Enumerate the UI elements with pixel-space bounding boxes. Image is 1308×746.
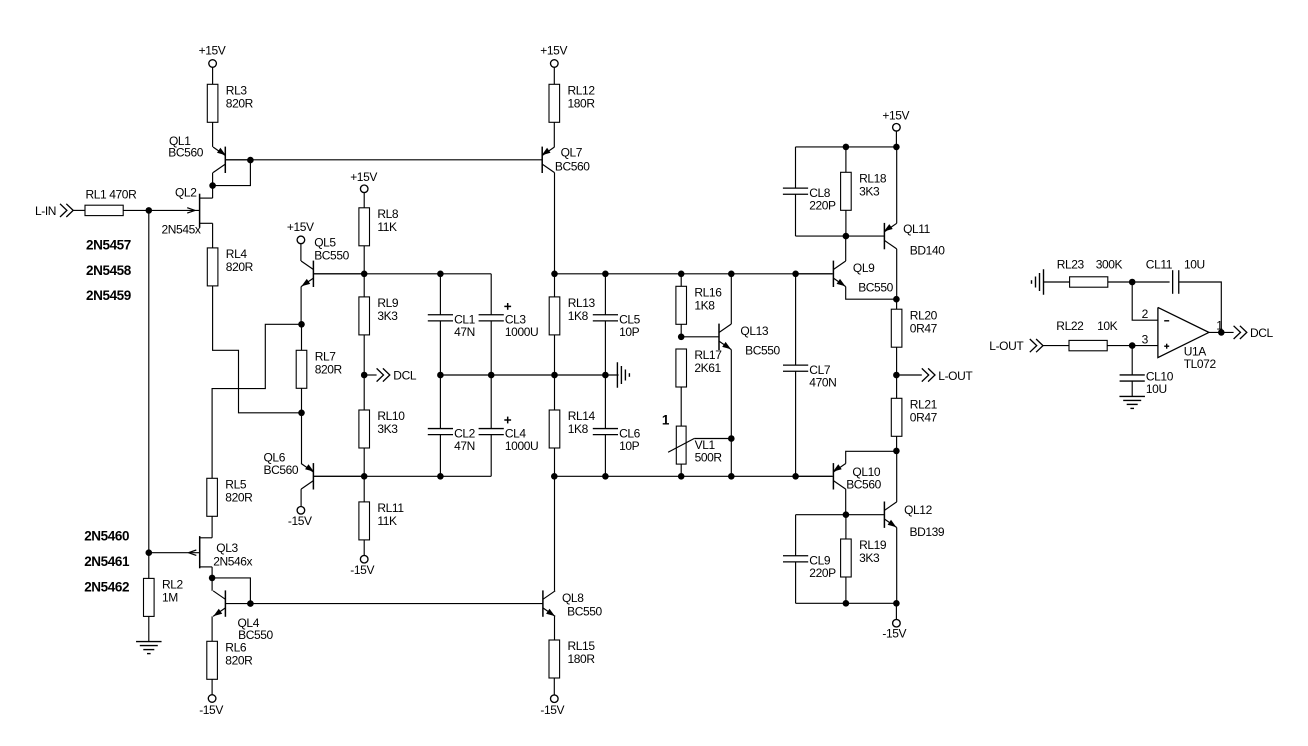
wire CL9/RL19 bottom rail	[796, 602, 897, 604]
node QL11 base node	[843, 233, 850, 240]
wire +15V down	[895, 131, 897, 147]
wire RL19 bottom stub	[845, 577, 847, 603]
node CL1 top	[437, 271, 444, 278]
wire current mirror base rail	[225, 159, 542, 161]
node QL1 base tie	[247, 157, 254, 164]
svg-text:2N5462: 2N5462	[84, 580, 129, 595]
svg-text:2: 2	[1142, 307, 1149, 321]
power terminal +15V (T6)	[350, 170, 377, 193]
svg-text:RL10: RL10	[377, 409, 405, 423]
svg-text:2N5458: 2N5458	[86, 263, 132, 278]
node QL8 collector node	[551, 473, 558, 480]
svg-text:RL14: RL14	[568, 409, 596, 423]
wire QL12 emitter down	[896, 528, 898, 604]
svg-text:BC550: BC550	[567, 605, 602, 619]
svg-text:820R: 820R	[226, 260, 254, 274]
svg-text:820R: 820R	[225, 491, 253, 505]
svg-text:180R: 180R	[568, 652, 596, 666]
port L-OUT (op-amp input)	[989, 339, 1043, 353]
wire VL1 bottom stub	[680, 464, 682, 476]
wire	[553, 122, 555, 147]
transistor QL12 (BD139)	[884, 502, 945, 540]
wire VL1 wiper	[694, 438, 731, 440]
transistor QL9 (BC550)	[796, 261, 894, 295]
svg-text:+15V: +15V	[540, 44, 567, 58]
label 2N5459	[86, 288, 131, 303]
wire lower mirror base rail to QL8	[250, 603, 543, 605]
svg-text:2N5459: 2N5459	[86, 288, 131, 303]
wire QL4 emitter down	[211, 616, 213, 641]
svg-text:RL6: RL6	[225, 641, 247, 655]
node RL16/RL17 (QL13 base)	[678, 334, 685, 341]
transistor QL5 (BC550)	[301, 235, 364, 287]
wire RL7 top stub	[301, 324, 303, 350]
svg-text:3: 3	[1142, 332, 1149, 346]
port L-OUT (output)	[896, 368, 973, 383]
svg-text:RL18: RL18	[859, 172, 887, 186]
resistor RL5	[207, 478, 253, 517]
svg-text:-15V: -15V	[540, 703, 564, 717]
wire RL9 bottom stub	[363, 335, 365, 375]
wire CL6 column upper	[604, 375, 606, 429]
svg-text:DCL: DCL	[393, 368, 417, 382]
svg-text:RL21: RL21	[910, 398, 938, 412]
svg-text:RL16: RL16	[694, 286, 722, 300]
svg-text:RL19: RL19	[859, 538, 887, 552]
wire QL1 base-collector tie	[213, 160, 251, 186]
wire RL14 top stub	[554, 375, 556, 410]
wire CL8 lower	[795, 194, 797, 236]
node QL4 base tie	[247, 600, 254, 607]
svg-text:BC560: BC560	[264, 463, 299, 477]
svg-text:820R: 820R	[315, 363, 343, 377]
svg-text:RL12: RL12	[568, 84, 596, 98]
wire QL5 collector	[300, 243, 302, 261]
wire QL2 drain up	[212, 186, 214, 199]
node QL1 collector / QL2 drain	[209, 182, 216, 189]
svg-text:QL9: QL9	[853, 261, 875, 275]
svg-text:2N5460: 2N5460	[84, 528, 129, 543]
wire RL17 bottom stub	[680, 387, 682, 426]
wire RL20 bottom stub	[896, 347, 898, 375]
transistor QL10 (BC560)	[796, 463, 882, 491]
svg-text:RL1 470R: RL1 470R	[86, 187, 138, 201]
power terminal -15V (T10)	[882, 619, 906, 640]
capacitor CL6	[593, 426, 641, 453]
wire RL21 top stub	[896, 375, 898, 398]
svg-text:10P: 10P	[619, 439, 640, 453]
wire RL23 to node	[1108, 281, 1132, 283]
node -15V node	[893, 600, 900, 607]
transistor QL4 (BC550)	[213, 590, 273, 641]
svg-text:QL13: QL13	[740, 324, 768, 338]
wire RL18 bottom stub	[845, 210, 847, 236]
wire CL1 column upper	[439, 274, 441, 315]
resistor RL19	[841, 538, 887, 577]
JFET QL2 (2N545x)	[149, 186, 213, 237]
wire RL16 bottom stub	[680, 324, 682, 337]
wire CL8 upper	[795, 147, 797, 188]
resistor RL1	[85, 187, 137, 215]
resistor RL22	[1056, 319, 1117, 351]
capacitor CL4	[479, 417, 539, 453]
wire QL13 collector up	[730, 274, 732, 324]
node CL1/CL2	[437, 372, 444, 379]
wire RL5 top to RL7 top	[212, 324, 301, 478]
wire inverting input	[1132, 282, 1158, 320]
svg-text:-15V: -15V	[199, 703, 223, 717]
node op-amp output node	[1218, 329, 1225, 336]
svg-text:L-OUT: L-OUT	[938, 369, 973, 383]
ground (CL10 ground)	[1119, 396, 1145, 408]
port DCL (op-amp output)	[1234, 326, 1274, 340]
svg-text:RL15: RL15	[568, 639, 596, 653]
wire QL11 base rail	[796, 235, 885, 237]
node +15V node	[893, 144, 900, 151]
svg-text:RL9: RL9	[377, 296, 399, 310]
node VL1 bottom	[678, 473, 685, 480]
wire arrow to RL22	[1043, 345, 1069, 347]
wire bottom rail A (QL6 base net)	[313, 475, 491, 477]
svg-text:820R: 820R	[226, 97, 254, 111]
node RL8/RL9	[361, 271, 368, 278]
capacitor CL7	[783, 363, 836, 390]
svg-text:QL11: QL11	[903, 222, 931, 236]
svg-text:3K3: 3K3	[377, 422, 398, 436]
svg-text:300K: 300K	[1096, 258, 1123, 272]
svg-text:RL11: RL11	[377, 501, 404, 515]
wire QL6 emitter	[301, 413, 303, 464]
wire QL4 base-collector tie	[212, 578, 250, 604]
node RL16 top	[678, 271, 685, 278]
wire QL9 emitter	[846, 287, 897, 300]
svg-text:2N5461: 2N5461	[84, 554, 130, 569]
wire CL2 column lower	[439, 435, 441, 477]
svg-text:820R: 820R	[225, 654, 253, 668]
node input	[146, 207, 153, 214]
wire top rail A (QL5 base net)	[313, 273, 491, 275]
resistor RL7	[296, 350, 342, 389]
resistor RL12	[549, 84, 595, 123]
svg-text:QL7: QL7	[561, 146, 583, 160]
wire	[363, 246, 365, 274]
wire	[148, 553, 150, 579]
svg-text:TL072: TL072	[1184, 357, 1217, 371]
wire QL3 drain up to RL5	[211, 516, 213, 538]
potentiometer VL1	[668, 426, 722, 465]
wire CL4 column upper	[490, 375, 492, 429]
node CL5 top	[602, 271, 609, 278]
wire CL10 lower	[1131, 381, 1133, 396]
wire CL3 column upper	[490, 274, 492, 315]
svg-text:BC560: BC560	[846, 478, 881, 492]
wire middle DCL rail	[440, 374, 618, 376]
wire CL6 column lower	[604, 435, 606, 477]
wire CL5 column lower	[604, 321, 606, 375]
resistor RL21	[891, 398, 937, 437]
node VL1 wiper / QL13 emitter	[728, 435, 735, 442]
svg-text:10K: 10K	[1097, 319, 1118, 333]
node CL7 bottom	[792, 473, 799, 480]
transistor QL11 (BD140)	[884, 222, 945, 257]
node CL5/CL6	[602, 372, 609, 379]
wire RL4 to RL7 bottom	[213, 286, 302, 413]
resistor RL20	[891, 308, 937, 347]
power terminal +15V (T9)	[882, 108, 909, 131]
capacitor CL9	[783, 554, 836, 581]
wire CL5 column upper	[604, 274, 606, 315]
wire RL7 bottom stub	[301, 388, 303, 413]
label 2N5457	[86, 237, 131, 252]
power terminal -15V (T2)	[199, 695, 223, 717]
svg-text:-15V: -15V	[288, 514, 312, 528]
svg-text:QL3: QL3	[216, 541, 238, 555]
wire	[73, 209, 85, 211]
svg-text:-15V: -15V	[350, 563, 374, 577]
label VL1 pin 1	[662, 413, 670, 428]
wire	[123, 209, 149, 211]
label 2N5462	[84, 580, 129, 595]
svg-text:CL11: CL11	[1146, 258, 1173, 272]
transistor QL6 (BC560)	[264, 450, 365, 489]
resistor RL3	[207, 84, 253, 123]
ground (input bias return)	[136, 642, 162, 654]
wire input node to QL3 gate	[148, 210, 150, 552]
node non-inverting input node	[1129, 342, 1136, 349]
wire ground to RL23	[1044, 281, 1070, 283]
resistor RL18	[841, 172, 887, 211]
wire QL12 collector up	[896, 451, 898, 502]
wire	[211, 679, 213, 695]
svg-text:220P: 220P	[809, 566, 836, 580]
svg-text:2K61: 2K61	[694, 361, 721, 375]
node DCL node	[361, 372, 368, 379]
svg-text:0R47: 0R47	[910, 321, 938, 335]
node RL7 bottom	[298, 410, 305, 417]
svg-text:1K8: 1K8	[568, 422, 589, 436]
svg-text:180R: 180R	[568, 97, 596, 111]
transistor QL7 (BC560)	[542, 146, 591, 174]
svg-text:2N546x: 2N546x	[213, 555, 252, 569]
svg-text:QL8: QL8	[562, 591, 584, 605]
wire QL13 emitter down	[730, 350, 732, 439]
resistor RL2	[144, 578, 184, 617]
svg-text:1000U: 1000U	[505, 325, 538, 339]
wire CL3 column lower	[490, 321, 492, 375]
wire RL19 top stub	[845, 515, 847, 539]
svg-text:3K3: 3K3	[377, 309, 398, 323]
svg-text:DCL: DCL	[1250, 326, 1274, 340]
wire RL14 bottom stub	[554, 448, 556, 476]
wire CL8/RL18 top rail	[796, 146, 897, 148]
wire CL9 upper	[795, 515, 797, 556]
power terminal -15V (T7)	[350, 555, 374, 576]
node QL10/QL12 node	[893, 448, 900, 455]
capacitor CL10	[1120, 370, 1174, 397]
svg-text:BC560: BC560	[168, 145, 203, 159]
svg-text:RL22: RL22	[1056, 319, 1084, 333]
resistor RL23	[1057, 258, 1123, 288]
svg-text:470N: 470N	[809, 376, 836, 390]
node QL3 gate	[146, 549, 153, 556]
node RL10/RL11	[361, 473, 368, 480]
svg-text:RL3: RL3	[226, 84, 248, 98]
node QL9/QL11 output node	[893, 296, 900, 303]
wire RL11 bottom stub	[363, 540, 365, 556]
node CL2 bottom	[437, 473, 444, 480]
svg-text:RL23: RL23	[1057, 258, 1085, 272]
node CL3/CL4	[488, 372, 495, 379]
label 2N5458	[86, 263, 132, 278]
wire CL2 column upper	[439, 375, 441, 429]
resistor RL13	[549, 296, 595, 335]
resistor RL4	[207, 247, 253, 286]
svg-text:+15V: +15V	[199, 44, 226, 58]
svg-text:RL2: RL2	[162, 578, 184, 592]
capacitor CL8	[783, 186, 836, 213]
wire QL8 emitter down	[554, 616, 556, 640]
wire QL9 collector up	[845, 236, 847, 261]
power terminal -15V (T8)	[540, 695, 564, 717]
power terminal +15V (T3)	[540, 44, 567, 68]
node L-OUT node	[893, 372, 900, 379]
svg-text:BD140: BD140	[910, 244, 945, 258]
resistor RL8	[359, 207, 399, 246]
node RL13/RL14	[551, 372, 558, 379]
node CL7 top	[792, 271, 799, 278]
svg-text:+15V: +15V	[882, 108, 909, 122]
resistor RL11	[359, 501, 404, 540]
wire	[212, 67, 214, 84]
ground (RL23 ground)	[1032, 269, 1044, 295]
svg-text:10P: 10P	[619, 325, 640, 339]
svg-text:1: 1	[662, 413, 670, 428]
resistor RL10	[359, 409, 405, 448]
wire CL1 column lower	[439, 321, 441, 375]
svg-text:3K3: 3K3	[859, 185, 880, 199]
wire RL10 bottom stub	[363, 448, 365, 476]
svg-text:3K3: 3K3	[859, 551, 880, 565]
wire QL11 collector down	[896, 249, 898, 299]
wire CL10 upper	[1131, 346, 1133, 375]
ground (mid-rail ground)	[617, 362, 629, 388]
resistor RL9	[359, 296, 399, 335]
wire QL6 collector down	[300, 489, 302, 507]
wire RL13 bottom stub	[554, 335, 556, 375]
resistor RL16	[676, 286, 722, 325]
wire to -15V terminal	[895, 603, 897, 620]
wire QL1 collector	[212, 173, 214, 186]
transistor QL13 (BC550)	[681, 324, 780, 358]
wire CL9 lower	[795, 562, 797, 604]
svg-text:RL5: RL5	[225, 478, 247, 492]
capacitor CL1	[428, 313, 476, 340]
wire QL12 base rail	[796, 514, 885, 516]
transistor QL1 (BC560)	[168, 134, 250, 173]
wire QL10 emitter	[846, 451, 897, 463]
op-amp U1A (TL072)	[1142, 307, 1224, 371]
svg-text:220P: 220P	[809, 199, 836, 213]
wire top rail B (VAS net)	[554, 273, 832, 275]
resistor RL15	[549, 639, 595, 678]
svg-text:QL12: QL12	[904, 503, 932, 517]
port DCL (offset null)	[364, 368, 417, 382]
svg-text:-15V: -15V	[882, 627, 906, 641]
svg-text:L-OUT: L-OUT	[989, 339, 1024, 353]
wire QL8 collector up	[554, 476, 556, 591]
capacitor CL11	[1173, 270, 1179, 294]
wire bottom rail B	[554, 475, 832, 477]
svg-text:47N: 47N	[454, 325, 475, 339]
svg-text:RL13: RL13	[568, 296, 596, 310]
svg-text:RL20: RL20	[910, 308, 938, 322]
svg-text:0R47: 0R47	[910, 411, 938, 425]
svg-text:1K8: 1K8	[568, 309, 589, 323]
svg-text:1K8: 1K8	[694, 299, 715, 313]
transistor QL8 (BC550)	[543, 590, 603, 618]
port L-IN	[35, 204, 73, 218]
svg-text:RL17: RL17	[694, 348, 722, 362]
capacitor CL2	[428, 426, 476, 453]
wire RL10 top stub	[363, 375, 365, 410]
svg-text:47N: 47N	[454, 439, 475, 453]
wire	[553, 678, 555, 695]
svg-text:QL6: QL6	[264, 450, 286, 464]
capacitor CL5	[593, 313, 641, 340]
wire QL7 collector down	[554, 173, 556, 274]
wire RL22 to op-amp	[1107, 345, 1158, 347]
label CL11	[1146, 258, 1205, 272]
node RL19 bottom	[843, 600, 850, 607]
wire QL2 source down	[212, 223, 214, 248]
resistor RL17	[676, 348, 722, 387]
svg-text:BC550: BC550	[314, 248, 349, 262]
svg-text:500R: 500R	[695, 451, 723, 465]
wire RL11 top stub	[363, 476, 365, 502]
svg-text:+15V: +15V	[287, 220, 314, 234]
svg-text:+15V: +15V	[350, 170, 377, 184]
node QL7 collector node	[551, 271, 558, 278]
wire QL3 source down	[211, 567, 213, 578]
power terminal +15V (T1)	[199, 44, 226, 68]
svg-text:2N5457: 2N5457	[86, 237, 131, 252]
svg-text:2N545x: 2N545x	[162, 222, 201, 236]
label 2N5461	[84, 554, 130, 569]
node QL13 collector	[728, 271, 735, 278]
wire RL18 top stub	[845, 147, 847, 172]
capacitor CL3	[479, 303, 539, 339]
wire RL16 top stub	[680, 274, 682, 287]
svg-text:QL5: QL5	[314, 235, 336, 249]
wire QL5 emitter down	[300, 287, 302, 325]
power terminal +15V (T4)	[287, 220, 314, 244]
wire RL21 bottom stub	[896, 436, 898, 451]
node QL12 base node	[843, 511, 850, 518]
wire CL7 top	[795, 274, 797, 365]
wire RL20 top stub	[896, 299, 898, 309]
svg-text:RL4: RL4	[226, 247, 248, 261]
svg-text:BC560: BC560	[555, 159, 590, 173]
node RL18 top	[843, 144, 850, 151]
wire	[148, 616, 150, 641]
svg-text:RL8: RL8	[377, 207, 399, 221]
wire	[212, 122, 214, 147]
svg-text:10U: 10U	[1146, 382, 1167, 396]
resistor RL6	[207, 641, 253, 680]
svg-text:BD139: BD139	[910, 525, 945, 539]
wire QL4 collector up	[211, 578, 213, 591]
wire	[363, 192, 365, 208]
